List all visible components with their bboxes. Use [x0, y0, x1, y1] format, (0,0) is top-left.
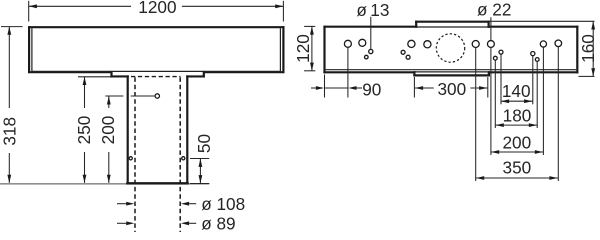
svg-text:160: 160 — [578, 34, 598, 63]
svg-text:50: 50 — [194, 134, 214, 153]
svg-text:ø 108: ø 108 — [201, 194, 245, 214]
svg-text:1200: 1200 — [138, 0, 176, 17]
svg-text:180: 180 — [503, 105, 532, 125]
svg-text:ø 22: ø 22 — [477, 0, 511, 20]
svg-text:200: 200 — [502, 132, 531, 152]
svg-text:250: 250 — [74, 116, 94, 145]
svg-text:ø 89: ø 89 — [201, 214, 235, 232]
svg-text:90: 90 — [362, 80, 381, 100]
svg-text:318: 318 — [0, 117, 20, 146]
svg-text:300: 300 — [437, 79, 466, 99]
svg-text:140: 140 — [502, 81, 531, 101]
svg-text:200: 200 — [98, 116, 118, 145]
svg-text:350: 350 — [503, 158, 532, 178]
svg-text:120: 120 — [293, 34, 313, 63]
svg-text:ø 13: ø 13 — [356, 0, 389, 20]
